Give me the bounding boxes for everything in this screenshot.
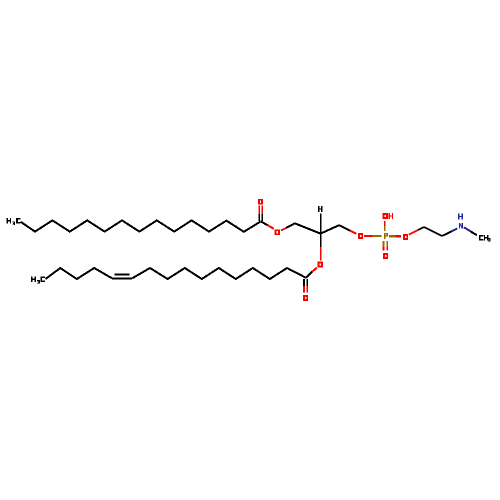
carbonyl C1=O double bond (top chain) — [259, 205, 262, 221]
top acyl chain zigzag C15..C1 (pentadecanoyl) — [21, 220, 261, 231]
bond CH2-N — [442, 229, 457, 237]
carbonyl C1'=O double bond (bottom chain) — [304, 279, 307, 292]
carbonyl oxygen O label (bottom chain) — [303, 295, 308, 301]
bond C3-C2 glycerol — [295, 223, 321, 233]
bond O4-CH2 ethanolamine — [409, 227, 424, 235]
hydroxyl OH label on P — [383, 213, 393, 219]
bond CH2-CH2 ethanolamine — [424, 227, 442, 236]
bond O1-C3 glycerol — [281, 223, 295, 230]
H label on glycerol C2 — [318, 206, 323, 212]
bond O3-P — [364, 235, 381, 237]
bond C1-O3 phosphoester — [339, 225, 356, 234]
cis C=C double bond (bottom chain) — [112, 274, 132, 278]
bottom acyl chain zigzag C16..C12 (hexadecenoyl) — [46, 268, 113, 279]
bond C2-O2 sn2 ester — [320, 234, 322, 261]
bond P-OH — [384, 221, 386, 231]
bond H-C2 — [320, 214, 322, 234]
sn-2 ester oxygen O2 label — [318, 262, 323, 268]
bond C1'-O2 ester bottom chain — [306, 268, 317, 278]
ester oxygen O1 label — [275, 229, 280, 235]
bond N-CH3 — [464, 227, 477, 235]
N-methyl label CH3 — [479, 235, 491, 242]
H label on N — [458, 214, 463, 220]
methyl label H3C (bottom chain terminus) — [31, 277, 45, 284]
bottom acyl chain zigzag C11..C1 carbonyl — [132, 268, 306, 279]
phosphorus P label — [384, 233, 388, 239]
bond C2-C1 glycerol toward phosphate — [321, 225, 340, 233]
phosphoester oxygen O3 label — [358, 233, 363, 239]
phosphoester oxygen O4 label — [403, 234, 408, 240]
phosphoryl oxygen O label below P — [383, 253, 388, 259]
methyl label H3C (top chain terminus) — [7, 218, 21, 225]
P=O double bond below P — [384, 241, 388, 251]
bond P-O4 — [389, 235, 401, 237]
bond C1-O1 ester — [261, 221, 274, 228]
amine nitrogen N label — [459, 223, 463, 229]
carbonyl oxygen O label (top chain) — [258, 199, 263, 205]
